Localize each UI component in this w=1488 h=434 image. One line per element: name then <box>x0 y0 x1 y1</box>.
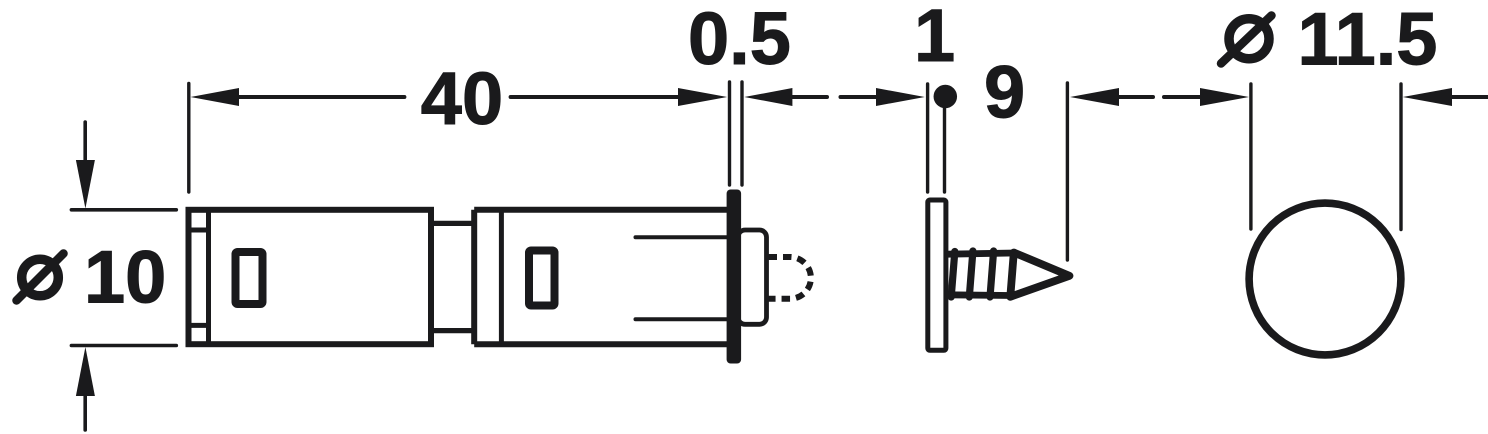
svg-text:10: 10 <box>84 236 166 319</box>
dimension 10 bottom arrow line <box>83 395 87 430</box>
svg-text:9: 9 <box>984 51 1025 134</box>
svg-text:1: 1 <box>914 0 955 77</box>
counter plate disc <box>928 200 946 350</box>
dimension 10 bottom extension line <box>71 344 176 348</box>
screw thread bar 2 <box>969 251 973 297</box>
latch body neck top edge <box>431 221 474 226</box>
latch barrel top line <box>636 235 730 239</box>
latch body left end-cap top divider <box>189 228 209 233</box>
dimension 9 extension line right (screw tip) <box>1066 83 1069 260</box>
dimension diameter 10 symbol circle <box>22 259 59 296</box>
dimension 11.5 outside arrow left <box>1200 88 1249 106</box>
dimension 40 arrow left <box>191 88 240 106</box>
dimension 11.5 extension line right <box>1399 84 1402 230</box>
dimension 1 extension line right (below dot) <box>943 105 946 192</box>
svg-text:0.5: 0.5 <box>688 0 791 80</box>
dimension 10 top arrow <box>76 160 95 209</box>
screw thread bottom rail <box>947 291 1012 299</box>
plunger housing <box>738 230 767 324</box>
latch body left end-cap bottom divider <box>189 323 209 328</box>
dimension 11.5 extension line left <box>1249 84 1252 229</box>
dimension 9 arrow tail right <box>1118 95 1153 99</box>
svg-text:40: 40 <box>421 57 503 140</box>
dimension diameter 10 symbol slash <box>17 254 64 301</box>
screw cone point <box>1010 253 1069 297</box>
latch body right section outline <box>474 210 729 345</box>
dimension 40 line right segment <box>511 95 679 99</box>
mounting flange <box>727 190 742 364</box>
latch body left end-cap inner line <box>206 210 211 344</box>
dimension 0.5 arrow tail right <box>791 95 827 99</box>
counter plate front view circle <box>1249 203 1401 355</box>
latch body neck bottom edge <box>431 328 474 333</box>
screw thread bar 3 <box>990 251 994 297</box>
dimension 10 top arrow line <box>83 122 87 160</box>
dimension 0.5 extension line left <box>728 82 731 185</box>
latch body right end-cap inner line <box>499 210 504 345</box>
screw thread bar 1 <box>951 252 955 298</box>
dimension diameter 11.5 symbol slash <box>1221 16 1272 64</box>
dimension 11.5 arrow tail left <box>1164 95 1201 99</box>
dimension 1 terminator dot <box>934 85 958 109</box>
latch barrel bottom line <box>636 317 730 321</box>
plunger dotted outline <box>769 257 811 299</box>
latch body left mounting slot <box>236 252 263 304</box>
dimension 9 outside arrow right <box>1070 88 1119 106</box>
dimension 0.5 extension line right <box>740 82 743 185</box>
dimension 11.5 outside arrow right <box>1403 88 1452 106</box>
dimension 1 arrow tail left <box>841 95 878 99</box>
latch body right mounting slot <box>529 251 555 306</box>
dimension 10 bottom arrow <box>76 347 95 396</box>
svg-text:11.5: 11.5 <box>1298 0 1438 81</box>
dimension 40 line left segment <box>238 95 404 99</box>
dimension 1 extension line left <box>926 84 929 192</box>
dimension 10 top extension line <box>71 208 176 212</box>
dimension 0.5 outside arrow right <box>744 88 792 106</box>
dimension 40 arrow right / 0.5 outside arrow left <box>678 88 727 106</box>
dimension 11.5 arrow tail right <box>1451 95 1488 99</box>
dimension diameter 11.5 symbol circle <box>1229 19 1269 59</box>
dimension 40 extension line left <box>187 84 190 193</box>
dimension 1 outside arrow left <box>876 88 925 106</box>
screw thread top rail <box>947 253 1015 254</box>
latch body left section outline <box>189 210 432 344</box>
